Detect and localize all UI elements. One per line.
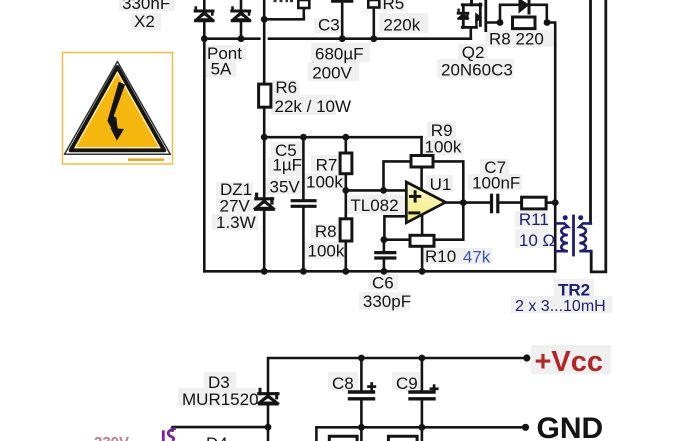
transformer TR2 windings [557, 216, 591, 255]
resistor R8 body [513, 17, 536, 29]
junction R4 tap [261, 16, 268, 23]
svg-text:GND: GND [537, 412, 604, 441]
svg-text:100k: 100k [425, 138, 462, 157]
svg-text:680µF: 680µF [315, 45, 364, 64]
svg-text:100k: 100k [306, 173, 343, 192]
junction opamp V- rail [419, 268, 426, 275]
svg-text:R8 220: R8 220 [489, 30, 544, 49]
wire R11 to node x555 [546, 201, 555, 204]
TR2 phase dots [563, 215, 568, 220]
junction R7/R8 divider [342, 187, 349, 194]
wire inverting input [384, 216, 406, 239]
capacitor C9 [410, 358, 434, 427]
junction C8 top [358, 355, 365, 362]
wire output to C7 [446, 201, 490, 204]
resistor R7 [340, 137, 352, 190]
svg-text:X2: X2 [134, 12, 155, 31]
resistor R6 body [259, 84, 271, 107]
junction C9 bottom [419, 424, 426, 431]
wire C3 to rail [341, 1, 344, 39]
resistor R10 body [410, 235, 434, 246]
svg-text:200V: 200V [312, 64, 352, 83]
svg-text:2 x 3...10mH: 2 x 3...10mH [515, 298, 606, 315]
wire R9 right to output [433, 161, 463, 202]
junction C9 top [419, 355, 426, 362]
purple winding TR1 (cut) [163, 429, 176, 441]
diode D-gate (over R8) [520, 0, 530, 13]
junction R8 bottom rail [342, 268, 349, 275]
wire top rail left segment from bridge [204, 37, 259, 40]
wire D3 below to bottom edge [267, 427, 270, 441]
junction inverting node [381, 236, 388, 243]
transformer TR2 primary line right [591, 0, 606, 272]
component box cut right [388, 436, 417, 441]
junction D3 anode [265, 424, 272, 431]
transistor Q2 MOSFET [458, 0, 486, 31]
junction opamp output [460, 199, 467, 206]
svg-text:1.3W: 1.3W [216, 213, 256, 232]
svg-text:C6: C6 [372, 273, 394, 292]
svg-text:100nF: 100nF [472, 173, 520, 192]
svg-text:C9: C9 [396, 374, 418, 393]
svg-text:TL082: TL082 [350, 196, 398, 215]
wire bridge right diode vertical top [240, 0, 243, 10]
junction C3 top [339, 35, 346, 42]
wire R9 left branch [384, 161, 412, 190]
diode D3 [259, 389, 278, 404]
junction R8 right [544, 19, 551, 26]
wire +Vcc rail [268, 358, 527, 427]
wire R8 node up and over to diode [500, 5, 520, 23]
junction C5 top [300, 134, 307, 141]
wire rail corner up to Q2 source [469, 28, 472, 39]
C8 plus sign [367, 382, 376, 391]
svg-text:D4: D4 [206, 434, 228, 441]
wire R6 bottom to DZ1 [263, 107, 266, 199]
wire opamp vminus pin down [421, 215, 424, 236]
svg-text:22k / 10W: 22k / 10W [275, 97, 352, 116]
component box cut left [329, 436, 357, 441]
terminal GND [522, 424, 529, 431]
wire GND rail [316, 427, 525, 441]
wire noninverting input [346, 189, 407, 192]
svg-text:R5: R5 [383, 0, 405, 13]
svg-text:+Vcc: +Vcc [535, 346, 604, 378]
wire bridge left diode vertical top [203, 0, 206, 10]
svg-text:R8: R8 [315, 222, 337, 241]
svg-text:Q2: Q2 [462, 43, 485, 62]
resistor R11 body [522, 197, 547, 209]
wire vertical x264 from top [263, 0, 266, 84]
wire top rail right segment [269, 37, 471, 40]
wire vref corner down through R9 [420, 137, 423, 155]
op-amp U1 triangle [406, 182, 445, 223]
diode D-bridge-left [195, 8, 213, 21]
C9 plus sign [430, 384, 439, 393]
junction noninverting input [380, 187, 387, 194]
junction C5 bottom rail [300, 268, 307, 275]
svg-text:100k: 100k [308, 242, 345, 261]
junction bridge right output [238, 35, 245, 42]
wire DZ1 to bottom rail [263, 210, 266, 271]
junction Q2 gate / R8 left [497, 19, 504, 26]
wire bridge left output down to bottom rail [203, 39, 206, 272]
capacitor C3 top plate [333, 0, 352, 3]
bottom dots [265, 354, 531, 431]
resistor R4 bottom end square (cut at top) [298, 0, 309, 8]
svg-text:10 Ω: 10 Ω [519, 231, 555, 250]
terminal +Vcc [523, 354, 530, 361]
junction R5 bottom [370, 35, 377, 42]
wire Q2 gate to R8 node [487, 21, 501, 24]
svg-text:D3: D3 [208, 373, 230, 392]
svg-text:C8: C8 [332, 374, 354, 393]
wire bridge right diode to rail [240, 21, 243, 39]
svg-text:1µF: 1µF [272, 156, 302, 175]
svg-text:C3: C3 [318, 15, 340, 34]
svg-text:U1: U1 [430, 175, 452, 194]
svg-text:35V: 35V [270, 178, 301, 197]
wire bridge left diode to rail [203, 21, 206, 39]
wire C9 below rail [421, 427, 424, 441]
svg-text:R6: R6 [275, 78, 297, 97]
bottom rail [204, 270, 555, 273]
svg-text:330pF: 330pF [363, 292, 411, 311]
svg-text:TR2: TR2 [558, 280, 590, 299]
wire R8 right node to x555 [547, 23, 555, 272]
junction R11 output node [552, 199, 559, 206]
wire vref horizontal y138 [264, 136, 421, 139]
junction bridge left output [201, 35, 208, 42]
svg-text:R7: R7 [316, 155, 338, 174]
wire C7 to R11 [499, 201, 521, 204]
capacitor C6 [376, 240, 395, 272]
svg-text:MUR1520: MUR1520 [182, 390, 259, 409]
wire R9 bottom to opamp vplus pin [420, 167, 423, 190]
wire R10 bottom pin to rail [421, 246, 424, 271]
warning sign [63, 53, 173, 165]
capacitor C5 [292, 137, 315, 271]
wire diode to right node [531, 5, 547, 23]
wire R5 vertical [372, 7, 375, 39]
junction C6 bottom rail [381, 268, 388, 275]
junction R7 top [342, 134, 349, 141]
svg-text:47k: 47k [463, 247, 491, 266]
svg-text:220k: 220k [383, 16, 420, 35]
wire minus node to R10 [384, 238, 410, 241]
diode D-bridge-right [232, 8, 250, 21]
wire C8 below rail [360, 427, 363, 441]
capacitor C7 [492, 195, 498, 211]
junction C8 bottom [358, 424, 365, 431]
junction DZ1 bottom rail [261, 268, 268, 275]
resistor R8b 100k [340, 190, 352, 271]
transformer TR2 primary line left [589, 0, 592, 223]
resistor R9 body [411, 156, 433, 168]
diode DZ1 zener [255, 194, 273, 209]
svg-text:R11: R11 [519, 210, 549, 229]
svg-text:20N60C3: 20N60C3 [441, 61, 513, 80]
label background patches [119, 0, 612, 407]
junction vref left [261, 134, 268, 141]
wire stub to R4 bottom [264, 8, 304, 19]
svg-text:R10: R10 [425, 247, 456, 266]
wire D4 horizontal [173, 427, 269, 430]
svg-text:5A: 5A [211, 60, 232, 79]
wire R10 right to output vertical [434, 203, 463, 240]
capacitor C8 [350, 358, 374, 427]
cut text remnant top edge [274, 0, 294, 2]
svg-text:230V: 230V [94, 434, 129, 441]
resistor R5 bottom end square (cut at top) [368, 0, 379, 8]
